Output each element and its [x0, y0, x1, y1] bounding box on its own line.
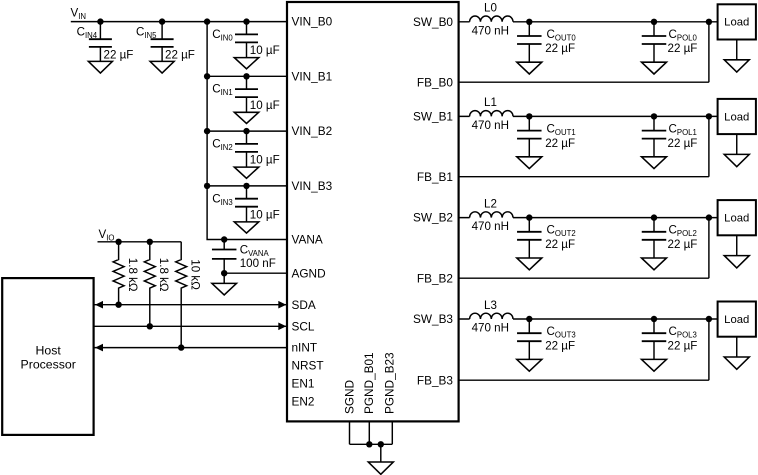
svg-text:Load: Load [724, 213, 749, 225]
svg-text:1.8 kΩ: 1.8 kΩ [157, 258, 170, 292]
svg-text:VIN: VIN [71, 7, 87, 22]
svg-text:22 µF: 22 µF [545, 42, 575, 55]
svg-text:CIN5: CIN5 [136, 26, 157, 41]
svg-text:CIN1: CIN1 [212, 83, 233, 98]
svg-text:NRST: NRST [292, 359, 324, 373]
svg-text:SDA: SDA [292, 298, 316, 312]
svg-text:1.8 kΩ: 1.8 kΩ [126, 258, 139, 292]
svg-text:VIN_B1: VIN_B1 [292, 69, 333, 83]
svg-text:COUT1: COUT1 [547, 122, 576, 137]
svg-text:SW_B1: SW_B1 [413, 110, 453, 124]
svg-text:CIN2: CIN2 [212, 138, 233, 153]
svg-text:470 nH: 470 nH [472, 119, 509, 132]
svg-text:COUT2: COUT2 [547, 224, 576, 239]
svg-text:SGND: SGND [342, 380, 356, 414]
svg-text:PGND_B23: PGND_B23 [383, 352, 397, 414]
svg-text:FB_B1: FB_B1 [417, 170, 453, 184]
svg-text:VIN_B0: VIN_B0 [292, 15, 333, 29]
svg-text:CPOL3: CPOL3 [669, 325, 697, 340]
svg-text:SW_B0: SW_B0 [413, 15, 453, 29]
svg-text:nINT: nINT [292, 341, 318, 355]
svg-text:FB_B3: FB_B3 [417, 373, 454, 387]
svg-text:COUT3: COUT3 [547, 325, 576, 340]
svg-text:470 nH: 470 nH [472, 322, 509, 335]
svg-text:VANA: VANA [292, 233, 323, 247]
svg-text:EN1: EN1 [292, 377, 315, 391]
svg-text:22 µF: 22 µF [165, 48, 195, 61]
svg-text:22 µF: 22 µF [545, 339, 575, 352]
svg-text:22 µF: 22 µF [104, 48, 134, 61]
svg-text:22 µF: 22 µF [668, 137, 698, 150]
svg-text:470 nH: 470 nH [472, 220, 509, 233]
svg-text:Load: Load [724, 111, 749, 123]
svg-text:CPOL0: CPOL0 [669, 28, 698, 43]
svg-text:L3: L3 [484, 299, 497, 312]
svg-text:Host: Host [36, 343, 62, 357]
svg-text:SW_B3: SW_B3 [413, 312, 453, 326]
svg-text:VIN_B2: VIN_B2 [292, 124, 333, 138]
svg-text:CVANA: CVANA [240, 244, 270, 259]
svg-text:COUT0: COUT0 [547, 28, 577, 43]
svg-text:FB_B2: FB_B2 [417, 271, 453, 285]
svg-text:22 µF: 22 µF [668, 339, 698, 352]
svg-text:Load: Load [724, 314, 749, 326]
svg-text:Processor: Processor [21, 358, 76, 372]
svg-text:L0: L0 [484, 2, 497, 15]
svg-text:CIN4: CIN4 [77, 26, 98, 41]
svg-text:470 nH: 470 nH [472, 24, 509, 37]
svg-text:PGND_B01: PGND_B01 [362, 352, 376, 414]
svg-text:Load: Load [724, 17, 749, 29]
svg-text:22 µF: 22 µF [545, 238, 575, 251]
svg-text:22 µF: 22 µF [668, 238, 698, 251]
svg-text:22 µF: 22 µF [545, 137, 575, 150]
svg-text:L2: L2 [484, 197, 497, 210]
svg-text:CPOL2: CPOL2 [669, 224, 697, 239]
svg-text:10 µF: 10 µF [250, 209, 280, 222]
svg-text:CIN0: CIN0 [212, 28, 233, 43]
svg-text:EN2: EN2 [292, 395, 315, 409]
svg-text:VIN_B3: VIN_B3 [292, 179, 333, 193]
svg-text:VIO: VIO [99, 228, 115, 243]
svg-text:AGND: AGND [292, 266, 326, 280]
svg-text:10 kΩ: 10 kΩ [188, 259, 201, 290]
svg-text:FB_B0: FB_B0 [417, 75, 454, 89]
svg-text:10 µF: 10 µF [250, 154, 280, 167]
svg-text:L1: L1 [484, 96, 497, 109]
svg-text:100 nF: 100 nF [240, 257, 276, 270]
svg-text:CPOL1: CPOL1 [669, 122, 697, 137]
svg-text:SCL: SCL [292, 319, 315, 333]
svg-text:10 µF: 10 µF [250, 44, 280, 57]
svg-text:SW_B2: SW_B2 [413, 211, 453, 225]
svg-text:CIN3: CIN3 [212, 192, 233, 207]
svg-text:22 µF: 22 µF [668, 42, 698, 55]
svg-text:10 µF: 10 µF [250, 99, 280, 112]
